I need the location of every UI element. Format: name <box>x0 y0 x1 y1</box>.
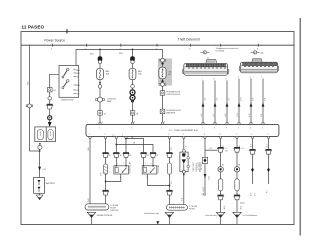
junction connector 1 <box>183 58 229 76</box>
wire relay1 coil <box>115 139 117 166</box>
svg-text:2-6: 2-6 <box>254 193 256 196</box>
svg-text:1E: 1E <box>109 155 111 157</box>
junction <box>169 185 171 187</box>
ground 2 <box>165 212 173 224</box>
svg-text:AM1: AM1 <box>76 69 80 72</box>
wire defogger column <box>220 139 222 213</box>
junction <box>105 181 107 183</box>
svg-text:3: 3 <box>238 127 239 129</box>
svg-text:FILTER: FILTER <box>189 208 195 210</box>
svg-text:THEFT DETERRENT ECU: THEFT DETERRENT ECU <box>174 130 198 132</box>
connector cap <box>130 56 135 60</box>
wire jog <box>29 150 39 152</box>
wire courtesy column <box>252 139 254 185</box>
svg-text:1J: 1J <box>242 148 244 150</box>
svg-text:3: 3 <box>238 77 239 79</box>
top tick <box>66 29 68 33</box>
svg-text:1: 1 <box>161 127 162 129</box>
page edge line <box>299 18 301 236</box>
wire bus W-R <box>76 48 163 50</box>
wire IG2 branch <box>50 74 59 122</box>
svg-text:1: 1 <box>145 163 146 165</box>
ground <box>233 212 241 224</box>
junction <box>132 49 134 51</box>
ground 1 <box>87 212 95 224</box>
svg-text:11 PASEO: 11 PASEO <box>22 25 45 30</box>
svg-text:4: 4 <box>267 134 268 136</box>
svg-text:ST1: ST1 <box>76 94 79 96</box>
inline connector <box>130 111 135 115</box>
wire EFI column <box>162 49 164 123</box>
ground arrow on frame <box>156 221 159 224</box>
connector 2 IG2 <box>47 88 52 92</box>
svg-text:G-W: G-W <box>208 176 210 180</box>
svg-text:5: 5 <box>146 177 147 179</box>
svg-text:DET ECU: DET ECU <box>201 161 203 170</box>
svg-text:IG2: IG2 <box>53 90 56 92</box>
svg-text:10: 10 <box>113 135 115 137</box>
svg-text:1H ENGINE ROOM: 1H ENGINE ROOM <box>166 110 181 112</box>
bullet connector <box>130 90 135 95</box>
svg-text:4: 4 <box>164 122 165 124</box>
svg-text:R-L: R-L <box>267 144 269 147</box>
connector ring <box>48 97 52 101</box>
resistor <box>218 179 222 191</box>
svg-text:1: 1 <box>89 134 90 136</box>
signal wire 3 <box>225 79 231 125</box>
wire door sw column <box>236 139 238 213</box>
connector ring <box>98 60 101 63</box>
svg-text:2: 2 <box>151 163 152 165</box>
svg-text:R-L: R-L <box>267 190 269 193</box>
svg-text:5: 5 <box>262 127 263 129</box>
ground <box>216 212 224 224</box>
connector code B <box>200 51 209 55</box>
svg-text:4: 4 <box>99 127 100 129</box>
fuse EFI <box>159 67 166 79</box>
connector pair <box>140 152 147 157</box>
wire fuse AM1 column <box>132 49 134 123</box>
svg-text:IGNITION SW: IGNITION SW <box>61 100 74 102</box>
fusible link box <box>35 127 56 142</box>
signal wire 1 <box>201 79 207 125</box>
grid tick 2 <box>119 44 121 51</box>
svg-text:6: 6 <box>131 127 132 129</box>
wire <box>143 157 145 165</box>
signal wire 5 <box>249 77 255 125</box>
fuse AM1 <box>129 68 136 79</box>
svg-text:8: 8 <box>214 127 215 129</box>
inline connector <box>98 111 103 115</box>
wire relay2 out <box>147 174 169 185</box>
wire fuse AM2 column <box>99 49 101 123</box>
theft deterrent ECU <box>86 124 279 136</box>
grid tick 3 <box>156 44 158 51</box>
svg-text:Theft Deterrent: Theft Deterrent <box>178 38 200 42</box>
svg-text:5: 5 <box>168 134 169 136</box>
bullet connector <box>48 116 52 120</box>
connector pair <box>113 152 120 157</box>
theft deterrent horn relay <box>142 165 157 174</box>
connector ring <box>38 145 42 149</box>
noise filter 1 <box>85 204 109 210</box>
wire <box>152 157 154 165</box>
branch 2B <box>115 143 153 153</box>
theft deterrent horn <box>180 149 190 175</box>
branch 2A <box>125 136 144 152</box>
svg-text:1: 1 <box>102 122 103 124</box>
horn relay <box>114 165 129 174</box>
svg-text:4: 4 <box>250 77 251 79</box>
bullet connector <box>218 167 223 172</box>
svg-text:8: 8 <box>220 134 221 136</box>
svg-text:1: 1 <box>117 163 118 165</box>
svg-text:J/B: J/B <box>225 150 227 152</box>
svg-text:G-W: G-W <box>241 97 243 101</box>
svg-text:w/ THEFT: w/ THEFT <box>198 161 200 170</box>
plug labels <box>109 155 158 165</box>
svg-text:9: 9 <box>226 79 227 81</box>
svg-text:2 IGNITION: 2 IGNITION <box>107 98 117 100</box>
connector pair <box>233 195 240 200</box>
signal wire 2 <box>213 79 219 125</box>
svg-text:AM2: AM2 <box>76 84 80 87</box>
svg-text:JUNCTION BLOCK: JUNCTION BLOCK <box>166 94 181 96</box>
fusible link terminal <box>39 143 41 145</box>
connector pair <box>166 190 173 195</box>
connector ring <box>131 60 134 63</box>
connector pair <box>102 152 109 157</box>
connector ring <box>159 83 166 87</box>
wire relay1 contact <box>125 139 127 166</box>
junction <box>99 82 101 84</box>
connector code A <box>251 51 265 55</box>
svg-text:2: 2 <box>105 134 106 136</box>
terminal <box>99 122 101 124</box>
wire battery main <box>28 45 30 151</box>
svg-text:3: 3 <box>183 134 184 136</box>
connector pair <box>166 152 173 157</box>
grid tick 6 <box>257 44 259 51</box>
svg-text:7: 7 <box>202 79 203 81</box>
connector pair <box>102 190 109 195</box>
svg-text:9: 9 <box>226 127 227 129</box>
grid tick 4 <box>189 44 191 51</box>
header rule <box>21 44 294 46</box>
connector pair <box>265 149 272 154</box>
svg-text:1E: 1E <box>147 155 149 157</box>
svg-text:IG2: IG2 <box>76 90 79 92</box>
resistor <box>167 163 171 174</box>
svg-text:Door lock relay: Door lock relay <box>206 214 217 217</box>
wire ignition feed <box>75 49 77 65</box>
terminal <box>131 122 133 124</box>
connector pair <box>149 152 156 157</box>
svg-text:9: 9 <box>122 135 123 137</box>
noise filter connector <box>96 97 105 102</box>
battery ground <box>36 193 43 199</box>
svg-text:AM2: AM2 <box>106 70 110 73</box>
pin numbers ECU bottom row <box>89 134 269 136</box>
svg-text:IG1: IG1 <box>76 77 79 79</box>
svg-text:8: 8 <box>214 79 215 81</box>
svg-text:1E: 1E <box>120 155 122 157</box>
splice arrow <box>204 174 207 178</box>
svg-text:IJ1: IJ1 <box>207 58 209 60</box>
signal wire 6 <box>261 77 266 125</box>
splice arrow <box>48 122 52 127</box>
diode <box>202 157 207 163</box>
svg-text:6: 6 <box>204 134 205 136</box>
junction <box>161 80 163 82</box>
svg-text:1F ENGINE ROOM: 1F ENGINE ROOM <box>166 92 180 94</box>
svg-text:7: 7 <box>202 127 203 129</box>
connector pair <box>217 195 224 200</box>
svg-text:Theft deterrent relay: Theft deterrent relay <box>144 212 159 215</box>
svg-text:7: 7 <box>236 134 237 136</box>
svg-text:FILTER: FILTER <box>110 208 116 210</box>
battery <box>34 178 45 194</box>
svg-text:1E: 1E <box>129 155 131 157</box>
svg-text:7: 7 <box>134 122 135 124</box>
junction <box>161 62 163 64</box>
svg-text:* : w/ Theft deterrent: * : w/ Theft deterrent <box>241 214 258 217</box>
bullet connector <box>234 167 239 172</box>
svg-text:3: 3 <box>120 177 121 179</box>
svg-text:4: 4 <box>250 127 251 129</box>
wire courtesy column 2 <box>268 139 270 185</box>
fuse AM2 <box>97 68 104 79</box>
splice arrow F <box>38 167 41 171</box>
svg-text:TD RELAY: TD RELAY <box>157 164 160 173</box>
resistor <box>235 179 239 191</box>
svg-text:ENGINE ROOM R/B: ENGINE ROOM R/B <box>97 215 113 217</box>
security horn <box>104 164 108 174</box>
wire relay1 out <box>106 174 121 181</box>
svg-text:AM1: AM1 <box>138 70 142 73</box>
wire ground W-B <box>89 139 91 204</box>
wire theft horn column <box>169 139 171 205</box>
signal wire 4 <box>237 77 243 125</box>
connector pair <box>233 147 240 152</box>
svg-text:THEFT DET: THEFT DET <box>193 161 195 172</box>
svg-text:Power Source: Power Source <box>44 38 65 42</box>
wire link 1J <box>205 148 218 150</box>
EFI fuse shaded block <box>158 59 172 86</box>
svg-text:1E: 1E <box>156 155 158 157</box>
svg-text:2.0L: 2.0L <box>43 169 46 171</box>
connector ring <box>159 58 166 62</box>
connector ring <box>98 85 102 89</box>
svg-text:2: 2 <box>251 134 252 136</box>
svg-text:L-W: L-W <box>205 97 207 101</box>
junction connector 2 <box>239 59 279 73</box>
border frame <box>21 32 294 225</box>
connector pair <box>249 149 256 154</box>
svg-text:1J 4: 1J 4 <box>209 148 212 150</box>
connector pair <box>46 104 53 109</box>
ECU bottom terminals <box>89 136 91 138</box>
connector 1H <box>160 109 165 114</box>
svg-text:1J: 1J <box>225 148 227 150</box>
pin numbers inside ECU <box>99 127 263 129</box>
noise filter 2 <box>166 205 187 211</box>
grid tick 0 <box>51 44 53 51</box>
connector pair <box>217 147 224 152</box>
connector 1F <box>160 91 165 96</box>
svg-text:3-2 NOISE: 3-2 NOISE <box>110 205 118 207</box>
connector ring <box>131 85 135 89</box>
junction <box>99 49 101 51</box>
wire horn power <box>183 139 185 205</box>
svg-text:4(3-2): 4(3-2) <box>240 202 245 204</box>
svg-text:ECU (R/B): ECU (R/B) <box>216 50 225 52</box>
svg-text:(IGNITION): (IGNITION) <box>110 210 119 212</box>
svg-text:HORN RELAY: HORN RELAY <box>129 161 132 173</box>
svg-text:2B: 2B <box>133 143 135 145</box>
svg-text:5: 5 <box>261 77 262 79</box>
connector cap <box>98 56 103 60</box>
splice arrow <box>267 168 270 172</box>
ignition switch <box>59 66 81 98</box>
wire tail light column <box>204 139 206 197</box>
grid tick 1 <box>85 44 87 51</box>
svg-text:G-W: G-W <box>237 113 239 117</box>
terminal <box>161 122 163 124</box>
svg-text:3-2 NOISE: 3-2 NOISE <box>189 206 197 208</box>
junction <box>39 150 41 152</box>
svg-text:BATTERY: BATTERY <box>46 182 56 185</box>
bullet connector <box>130 95 135 102</box>
wire horn feed <box>105 139 107 204</box>
svg-text:L-W: L-W <box>201 113 203 117</box>
grid tick 5 <box>219 44 221 51</box>
splice arrow <box>251 168 254 172</box>
wire to battery <box>39 149 41 177</box>
svg-text:TAIL LIGHT: TAIL LIGHT <box>202 186 205 196</box>
inline connector <box>26 104 33 108</box>
connector pair <box>122 152 129 157</box>
